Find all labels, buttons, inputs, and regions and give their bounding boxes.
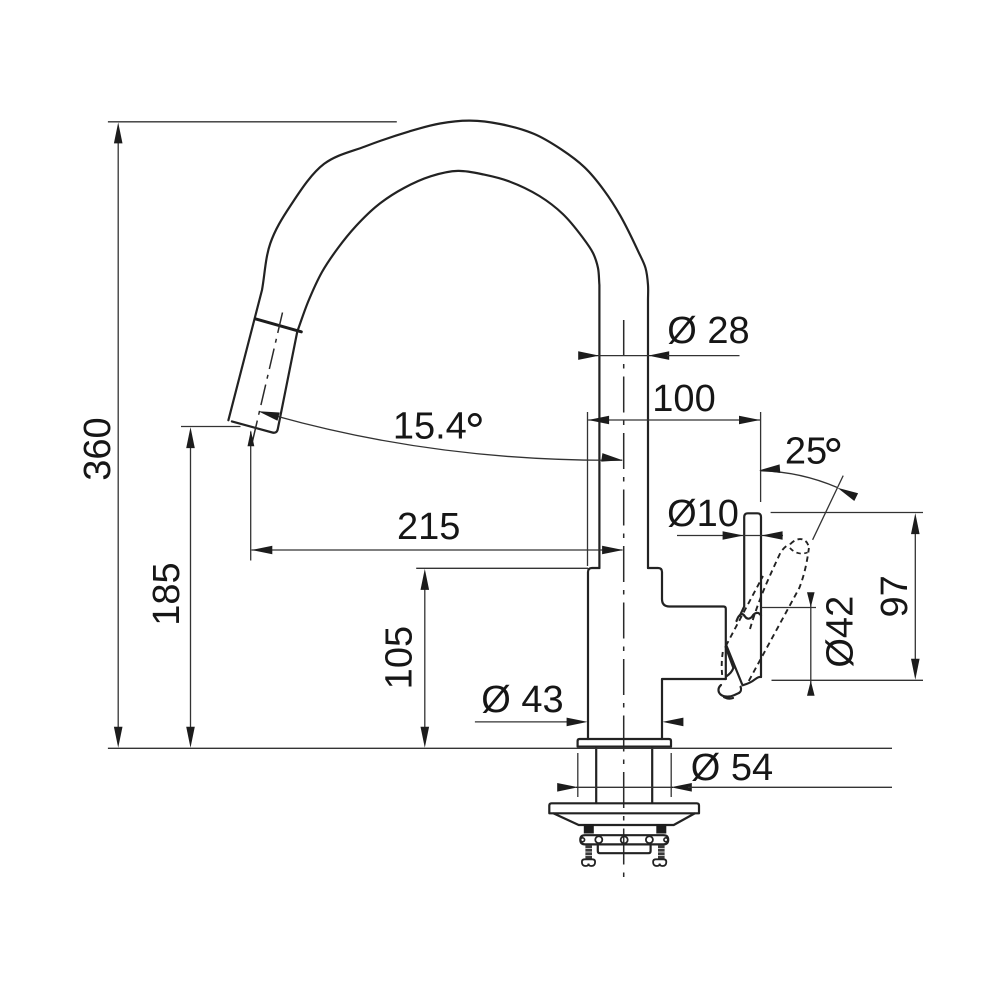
faucet body: handle ledge and boss: [662, 599, 726, 679]
mounting spacer plate: [549, 803, 699, 813]
handle pivot lower lip: [724, 697, 733, 698]
svg-text:215: 215: [397, 506, 460, 548]
ext lines flange (dia54): [577, 753, 579, 797]
faucet body: top step right: [648, 568, 662, 599]
svg-text:100: 100: [652, 378, 715, 420]
clamp nuts: [584, 824, 594, 834]
svg-text:25: 25: [785, 431, 827, 473]
spray head separation line: [255, 319, 301, 332]
dim 215: [252, 549, 623, 551]
handle joint short diagonal: [740, 607, 744, 616]
ext line handle right: [760, 412, 762, 502]
threaded studs: [585, 845, 592, 859]
handle lever dashed base left side: [722, 652, 723, 678]
ext line bottom (dia42/97): [772, 679, 924, 681]
svg-text:Ø42: Ø42: [820, 596, 862, 668]
T-bolt feet: [582, 859, 595, 866]
svg-text:Ø 54: Ø 54: [691, 747, 773, 789]
dim 100: [588, 419, 760, 421]
handle lever dashed right edge: [749, 548, 809, 681]
main vertical center line (dash-dot): [623, 320, 625, 878]
dim dia10: [677, 535, 783, 537]
15.4deg angle arc: [276, 416, 622, 460]
dim dia43: [475, 721, 570, 723]
svg-text:105: 105: [378, 626, 420, 689]
dim dia28: [596, 355, 651, 357]
svg-text:185: 185: [146, 562, 188, 625]
handle joint wavy line: [737, 613, 762, 621]
svg-text:Ø10: Ø10: [667, 493, 739, 535]
svg-text:360: 360: [77, 417, 119, 480]
dim dia42: [810, 594, 812, 695]
mounting rail: [580, 835, 668, 844]
25deg angle arc: [761, 471, 837, 488]
dim 360: [117, 127, 119, 743]
handle lever (dashed, tilted 25 deg) outer-left edge: [726, 576, 763, 646]
ext line ledge right (dia42 top): [762, 607, 817, 609]
faucet spout inner edge: [297, 171, 599, 568]
handle lever dashed inner-left edge: [750, 544, 790, 629]
svg-text:Ø 28: Ø 28: [667, 310, 749, 352]
ext line body left: [587, 412, 589, 566]
hose guide box: [598, 845, 651, 854]
svg-text:15.4: 15.4: [393, 406, 467, 448]
25deg axis extension line: [813, 476, 844, 540]
svg-text:Ø 43: Ø 43: [481, 679, 563, 721]
threaded shank left/right: [595, 747, 597, 803]
dim 105: [424, 574, 426, 743]
faucet body: top step left: [588, 568, 599, 739]
handle pivot bottom cap: [718, 685, 741, 697]
handle lever (solid, vertical position): [744, 513, 761, 677]
spacer skirt: [554, 814, 695, 826]
dim 185: [190, 432, 192, 743]
ext line body top: [416, 567, 588, 569]
handle pivot right shoulder: [743, 677, 762, 685]
dim dia54: [576, 786, 673, 788]
handle lever dashed tip cap: [790, 539, 809, 548]
faucet spout outer edge (left flank, over the arc, down right side): [228, 121, 648, 568]
svg-text:97: 97: [874, 575, 916, 617]
rail holes: [595, 836, 602, 843]
base flange: [578, 739, 671, 747]
pull-out spray head right edge and bottom face: [232, 332, 297, 433]
ext line from spray tip down: [250, 432, 252, 561]
spray head center axis (dash-dot): [252, 313, 283, 446]
handle pivot solid edges: [726, 645, 742, 684]
ext line handle top (97 top): [771, 512, 923, 514]
counter baseline: [108, 747, 892, 749]
dim 97: [914, 517, 916, 676]
top extension line: [108, 121, 397, 123]
ext line spray tip level: [181, 426, 241, 428]
